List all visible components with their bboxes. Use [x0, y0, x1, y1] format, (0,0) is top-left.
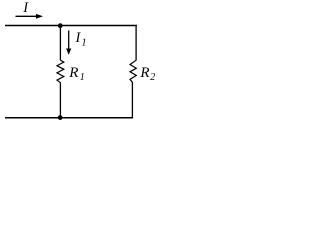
svg-text:I: I: [22, 0, 29, 16]
svg-text:1: 1: [82, 38, 87, 49]
svg-text:2: 2: [150, 72, 155, 83]
svg-text:I: I: [75, 30, 82, 46]
svg-text:R: R: [139, 65, 149, 81]
svg-text:R: R: [68, 65, 78, 81]
svg-text:1: 1: [80, 72, 85, 83]
